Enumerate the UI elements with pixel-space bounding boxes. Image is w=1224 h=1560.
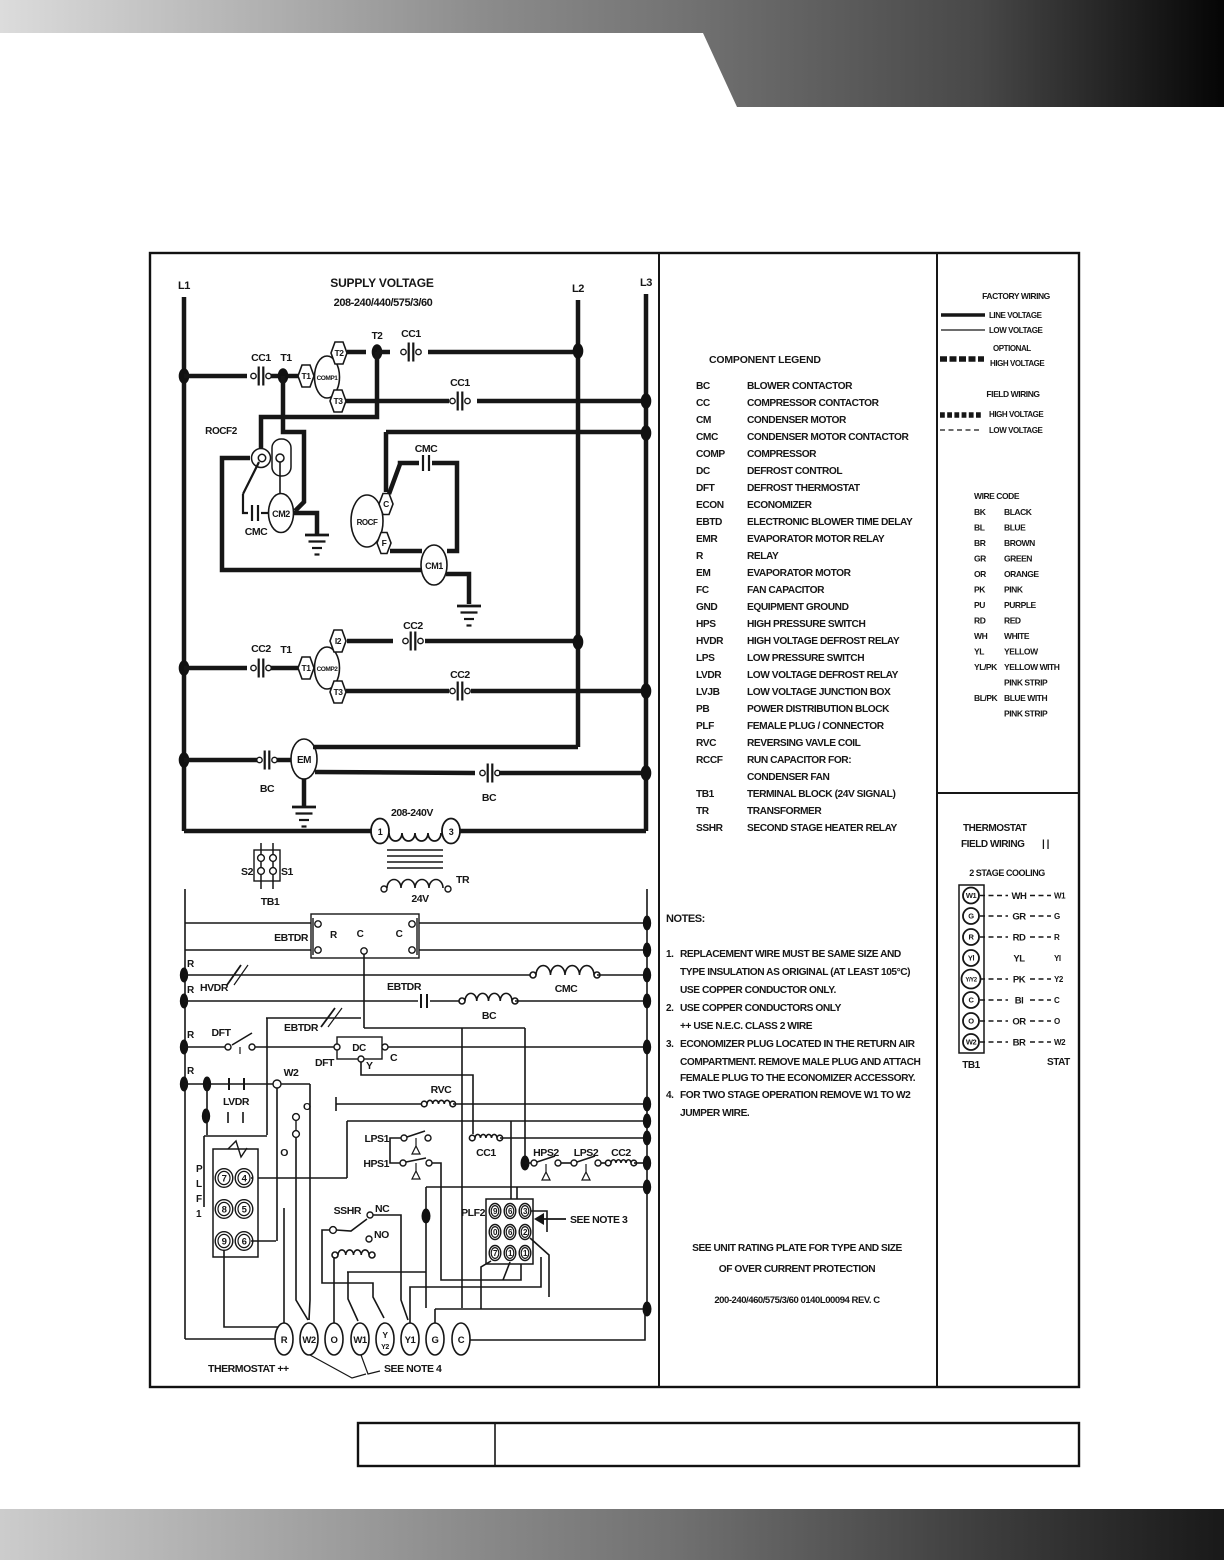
svg-text:CMC: CMC (415, 443, 438, 455)
connector PLF1 box (213, 1149, 258, 1257)
wire LPS bracket (390, 1138, 401, 1163)
svg-text:TERMINAL BLOCK (24V SIGNAL): TERMINAL BLOCK (24V SIGNAL) (747, 789, 895, 800)
wire CC1c to L3 (477, 399, 646, 404)
svg-text:O: O (1054, 1017, 1060, 1026)
sample field high voltage (940, 412, 982, 418)
svg-text:YELLOW WITH: YELLOW WITH (1004, 662, 1060, 672)
svg-text:LVJB: LVJB (696, 687, 720, 698)
symbol HPS2 triangle (545, 1164, 547, 1172)
svg-text:G: G (1054, 912, 1060, 921)
wire dot to HPS2 (525, 1162, 531, 1164)
svg-text:EBTD: EBTD (696, 517, 722, 528)
wire CMC loop to L3 (386, 430, 646, 435)
svg-text:SECOND STAGE HEATER RELAY: SECOND STAGE HEATER RELAY (747, 823, 898, 834)
svg-text:SUPPLY VOLTAGE: SUPPLY VOLTAGE (330, 276, 434, 290)
svg-text:REVERSING VAVLE COIL: REVERSING VAVLE COIL (747, 738, 861, 749)
svg-text:T2: T2 (334, 348, 344, 358)
thermostat terminal R (275, 1323, 293, 1355)
svg-text:EM: EM (297, 755, 311, 766)
svg-text:COMPARTMENT. REMOVE MALE PLUG: COMPARTMENT. REMOVE MALE PLUG AND ATTACH (680, 1057, 921, 1068)
wire left 24V bus (184, 889, 186, 1339)
switch LPS2 (571, 1160, 577, 1166)
svg-text:EVAPORATOR MOTOR RELAY: EVAPORATOR MOTOR RELAY (747, 534, 885, 545)
svg-text:CMC: CMC (245, 526, 268, 538)
node L1 row2 (179, 660, 190, 676)
svg-text:LVDR: LVDR (223, 1096, 250, 1108)
svg-text:BR: BR (1013, 1038, 1026, 1049)
node bus DC (643, 1040, 651, 1055)
wire BC row (184, 1000, 418, 1002)
svg-text:RVC: RVC (431, 1084, 452, 1096)
wire R riser (283, 1208, 285, 1323)
sample optional high voltage (940, 356, 984, 362)
page top gradient banner (0, 0, 1224, 107)
thermostat terminal Y/Y2 (376, 1323, 394, 1355)
PLF1 pin 7 (215, 1169, 233, 1188)
svg-text:L3: L3 (640, 277, 652, 289)
PLF1 pin 6 (235, 1232, 253, 1251)
svg-text:LOW VOLTAGE: LOW VOLTAGE (989, 426, 1044, 435)
node LVDR branch (203, 1077, 211, 1092)
sample line voltage (941, 313, 985, 317)
svg-text:COMPRESSOR: COMPRESSOR (747, 449, 817, 460)
svg-text:C: C (1054, 996, 1060, 1005)
svg-text:3: 3 (449, 827, 454, 837)
svg-text:TRANSFORMER: TRANSFORMER (747, 806, 822, 817)
svg-text:Y2: Y2 (1054, 975, 1064, 984)
PLF2 pin 0 (489, 1225, 501, 1240)
svg-text:G: G (968, 912, 974, 921)
svg-text:HIGH VOLTAGE: HIGH VOLTAGE (989, 410, 1044, 419)
compressor COMP1 (315, 356, 340, 398)
contact CMC plates (251, 505, 253, 521)
svg-text:C: C (357, 929, 364, 940)
wire EBTDR C down (363, 954, 365, 1028)
svg-text:C: C (396, 929, 403, 940)
page bottom gradient bar (0, 1509, 1224, 1560)
wire DFT to DC (255, 1046, 334, 1048)
svg-text:NO: NO (374, 1229, 389, 1241)
wire blade to CMC contact (243, 494, 248, 513)
svg-text:CC2: CC2 (251, 643, 271, 655)
svg-text:FEMALE PLUG / CONNECTOR: FEMALE PLUG / CONNECTOR (747, 721, 885, 732)
wire Y branch (361, 1062, 473, 1134)
svg-text:4.: 4. (666, 1090, 674, 1101)
wire HPS2 to LPS2 (561, 1162, 571, 1164)
svg-text:6: 6 (242, 1236, 247, 1247)
svg-text:G: G (432, 1335, 439, 1346)
terminal SSHR NO (366, 1236, 372, 1242)
svg-text:BLOWER CONTACTOR: BLOWER CONTACTOR (747, 381, 853, 392)
svg-text:SSHR: SSHR (334, 1205, 362, 1217)
switch HVDR (227, 965, 241, 985)
wire drop x525 (524, 1028, 526, 1158)
svg-text:PURPLE: PURPLE (1004, 600, 1037, 610)
svg-text:ROCF2: ROCF2 (205, 426, 238, 437)
svg-text:DFT: DFT (211, 1027, 231, 1039)
svg-text:USE COPPER CONDUCTOR ONLY.: USE COPPER CONDUCTOR ONLY. (680, 985, 836, 996)
PLF2 pin 3 (519, 1204, 531, 1219)
contact BC row EM (257, 757, 262, 762)
wire LVDR branch drop (206, 1084, 208, 1135)
wire L2 bus (576, 300, 581, 747)
svg-text:LOW VOLTAGE: LOW VOLTAGE (989, 326, 1044, 335)
svg-text:PINK STRIP: PINK STRIP (1004, 709, 1048, 719)
node bus RVC (643, 1097, 651, 1112)
ground EM (292, 806, 316, 809)
wire CMC to CM2 (261, 512, 269, 514)
svg-text:T1: T1 (280, 644, 292, 656)
svg-text:FACTORY WIRING: FACTORY WIRING (982, 291, 1051, 301)
svg-text:CC1: CC1 (476, 1147, 496, 1159)
svg-text:TR: TR (456, 874, 470, 886)
wire I2 to CC2b (347, 639, 393, 644)
svg-text:BC: BC (696, 381, 711, 392)
svg-text:CC1: CC1 (251, 352, 271, 364)
svg-text:BC: BC (482, 1010, 497, 1022)
wire capacitor to corner (432, 463, 457, 551)
wire drop x511 (510, 1121, 512, 1206)
svg-text:HPS2: HPS2 (533, 1147, 559, 1159)
contact CC1 row T3 (450, 398, 455, 403)
node bus CC2 (643, 1156, 651, 1171)
switch LPS1 (401, 1135, 407, 1141)
svg-text:TR: TR (696, 806, 710, 817)
wire T2 branch (261, 352, 377, 452)
terminal O jumper top (293, 1114, 300, 1121)
PLF2 pin 7 (489, 1246, 501, 1261)
svg-text:W1: W1 (966, 891, 977, 900)
svg-text:YL: YL (974, 647, 984, 657)
wire EM top to L2 (313, 745, 578, 750)
svg-text:CONDENSER FAN: CONDENSER FAN (747, 772, 830, 783)
svg-text:BL/PK: BL/PK (974, 693, 999, 703)
wire feed row (347, 1120, 647, 1122)
wire RVC row left (336, 1103, 421, 1105)
svg-text:CONDENSER MOTOR: CONDENSER MOTOR (747, 415, 847, 426)
thermostat terminal C (452, 1323, 470, 1355)
switch blade ROCF2 (243, 462, 259, 494)
svg-text:FC: FC (696, 585, 710, 596)
wire drop x517 (516, 1187, 518, 1227)
wire RVC stub (335, 1097, 337, 1111)
contact CC1 row1 (251, 373, 256, 378)
wire CM2 to ground (293, 513, 317, 534)
symbol LPS2 triangle (585, 1164, 587, 1172)
svg-text:WHITE: WHITE (1004, 631, 1030, 641)
switch HPS2 (531, 1160, 537, 1166)
svg-text:OF OVER CURRENT PROTECTION: OF OVER CURRENT PROTECTION (719, 1264, 875, 1275)
coil CC2 (611, 1160, 631, 1163)
svg-text:COMP: COMP (696, 449, 725, 460)
svg-text:TB1: TB1 (696, 789, 715, 800)
svg-text:YL: YL (1013, 954, 1025, 965)
thermostat terminal G (426, 1323, 444, 1355)
svg-text:C: C (383, 499, 389, 509)
node L2 row I2 (573, 634, 584, 650)
terminal DC Y (358, 1056, 364, 1062)
svg-text:Y1: Y1 (405, 1335, 417, 1346)
svg-text:T1: T1 (280, 352, 292, 364)
svg-text:T3: T3 (333, 687, 343, 697)
node bus left LVDR (180, 1077, 188, 1092)
wire HVDR row (184, 974, 530, 976)
wire T2 to node (347, 350, 366, 355)
contact LVDR lower ticks (227, 1112, 229, 1123)
node L3 row CMC (641, 425, 652, 441)
svg-text:TB1: TB1 (962, 1060, 980, 1071)
divider legend/wiring (936, 253, 938, 1387)
wire pin9 to R (224, 1250, 283, 1333)
svg-text:EBTDR: EBTDR (387, 981, 422, 993)
svg-text:LPS: LPS (696, 653, 715, 664)
wire down to C terminal (384, 432, 389, 492)
svg-text:DFT: DFT (696, 483, 716, 494)
svg-text:++ USE N.E.C. CLASS 2 WIRE: ++ USE N.E.C. CLASS 2 WIRE (680, 1021, 813, 1032)
wire pin4 lead (251, 1177, 253, 1179)
svg-text:PB: PB (696, 704, 709, 715)
svg-text:7: 7 (222, 1173, 227, 1184)
wire drop x462 (461, 1028, 463, 1308)
coil RVC (427, 1100, 450, 1104)
svg-text:F: F (382, 538, 387, 548)
coil CC1 (475, 1134, 497, 1138)
svg-text:FIELD WIRING: FIELD WIRING (961, 839, 1025, 850)
svg-text:O: O (968, 1017, 974, 1026)
svg-text:C: C (458, 1335, 465, 1346)
svg-text:8: 8 (222, 1204, 227, 1215)
svg-text:RVC: RVC (696, 738, 717, 749)
wire CC1 to T1 (271, 374, 299, 379)
terminal T1b hexagon (298, 657, 314, 679)
wire O jumper drop (296, 1137, 308, 1320)
svg-text:W1: W1 (353, 1335, 368, 1346)
svg-text:BK: BK (974, 507, 987, 517)
TB1 contacts (258, 855, 265, 862)
EBTDR left bracket (312, 918, 314, 955)
svg-text:200-240/460/575/3/60 0140L00: 200-240/460/575/3/60 0140L00094 REV. C (714, 1295, 880, 1306)
node T1 (278, 368, 289, 384)
coil transformer primary (389, 833, 441, 841)
svg-text:O: O (331, 1335, 338, 1346)
PLF1 zigzag (228, 1141, 247, 1157)
wire CC1 to bus (500, 1137, 647, 1139)
PLF2 pin 5 (504, 1225, 516, 1240)
wire EM to BC2 (315, 772, 475, 773)
svg-text:GND: GND (696, 602, 717, 613)
coil CMC (536, 966, 594, 975)
node L3 row EM (641, 765, 652, 781)
EBTDR C terminal (361, 948, 367, 954)
svg-text:Y: Y (366, 1060, 373, 1072)
wire feed drop x426 (425, 1187, 427, 1308)
svg-text:| |: | | (1042, 839, 1050, 850)
wire feed drop (346, 1121, 348, 1178)
svg-text:I2: I2 (335, 636, 342, 646)
wire NC row drop (266, 1018, 268, 1135)
svg-text:CC2: CC2 (450, 669, 470, 681)
svg-text:JUMPER WIRE.: JUMPER WIRE. (680, 1108, 750, 1119)
node bus BC (643, 994, 651, 1009)
wire HPS1 out (432, 1163, 521, 1280)
svg-text:THERMOSTAT: THERMOSTAT (963, 823, 1027, 834)
svg-text:COMPONENT LEGEND: COMPONENT LEGEND (709, 354, 821, 366)
svg-text:LOW VOLTAGE JUNCTION BOX: LOW VOLTAGE JUNCTION BOX (747, 687, 891, 698)
node bus left BC (180, 994, 188, 1009)
ground CM1 (457, 605, 481, 608)
svg-text:PK: PK (974, 585, 986, 595)
wire W2 to corner (281, 1083, 310, 1085)
svg-text:CM2: CM2 (272, 509, 290, 519)
PLF2 pin 9 (489, 1204, 501, 1219)
wire pin2 out (530, 1238, 549, 1297)
PLF1 pin 8 (215, 1200, 233, 1219)
PLF1 pin 5 (235, 1200, 253, 1219)
sample low voltage (941, 329, 985, 331)
svg-text:HIGH VOLTAGE: HIGH VOLTAGE (990, 359, 1045, 368)
svg-text:CMC: CMC (555, 983, 578, 995)
svg-text:L2: L2 (572, 283, 584, 295)
contact CC2 row2 (251, 665, 256, 670)
thermostat terminal O (325, 1323, 343, 1355)
svg-text:COMPRESSOR CONTACTOR: COMPRESSOR CONTACTOR (747, 398, 880, 409)
svg-text:3.: 3. (666, 1039, 674, 1050)
wire pin6 lead (251, 1240, 276, 1242)
thermostat terminal W2 (300, 1323, 318, 1355)
svg-text:SEE UNIT RATING PLATE FOR TYPE: SEE UNIT RATING PLATE FOR TYPE AND SIZE (692, 1243, 902, 1254)
svg-text:CC2: CC2 (611, 1147, 631, 1159)
svg-text:POWER DISTRIBUTION BLOCK: POWER DISTRIBUTION BLOCK (747, 704, 890, 715)
terminal 3 transformer (442, 819, 460, 844)
wire C to bus (470, 1311, 645, 1340)
wire pin7 out (481, 1261, 491, 1309)
contact CC1 row T2 (401, 349, 406, 354)
svg-text:1: 1 (378, 827, 383, 837)
svg-text:W2: W2 (284, 1067, 299, 1079)
svg-text:L: L (196, 1179, 202, 1190)
svg-text:BR: BR (974, 538, 986, 548)
svg-text:L1: L1 (178, 280, 190, 292)
capacitor ROCF2 body (252, 449, 271, 468)
svg-text:GREEN: GREEN (1004, 554, 1032, 564)
svg-text:RED: RED (1004, 616, 1021, 626)
contact CC2 row T3b (450, 688, 455, 693)
wire CC1b to L2 (428, 350, 578, 355)
svg-text:1: 1 (196, 1209, 202, 1220)
svg-text:GR: GR (974, 554, 986, 564)
coil transformer secondary (387, 880, 443, 889)
svg-text:LVDR: LVDR (696, 670, 722, 681)
svg-text:OR: OR (974, 569, 986, 579)
svg-text:CONDENSER MOTOR CONTACTOR: CONDENSER MOTOR CONTACTOR (747, 432, 909, 443)
svg-text:R: R (696, 551, 704, 562)
bracket PLF1 (203, 1136, 205, 1207)
wire EBTDR NC row (266, 1017, 361, 1019)
wire L1 bus (182, 297, 187, 831)
wire L1 to CC1 (184, 374, 247, 379)
svg-text:2.: 2. (666, 1003, 674, 1014)
contact CMC right plates (422, 455, 424, 471)
svg-text:HPS: HPS (696, 619, 716, 630)
terminal SSHR NC (367, 1212, 373, 1218)
svg-text:BROWN: BROWN (1004, 538, 1035, 548)
svg-text:EMR: EMR (696, 534, 718, 545)
svg-text:PINK: PINK (1004, 585, 1024, 595)
svg-text:EBTDR: EBTDR (284, 1022, 319, 1034)
node bus G row (643, 1302, 652, 1317)
svg-text:Bl: Bl (1015, 996, 1024, 1007)
terminal DC right (382, 1044, 388, 1050)
svg-text:9: 9 (222, 1236, 227, 1247)
svg-text:LOW VOLTAGE DEFROST RELAY: LOW VOLTAGE DEFROST RELAY (747, 670, 899, 681)
svg-text:EM: EM (696, 568, 710, 579)
svg-text:DFT: DFT (315, 1057, 335, 1069)
terminal W2 jumper (273, 1080, 281, 1088)
svg-text:CC: CC (696, 398, 711, 409)
thermostat terminal W1 (351, 1323, 369, 1355)
transformer core (387, 849, 443, 851)
svg-text:OPTIONAL: OPTIONAL (993, 344, 1031, 353)
wire T3 to CC1c (346, 399, 449, 404)
wire W1 feed cross row (347, 1271, 426, 1273)
wire transformer to L3 (460, 829, 646, 834)
bottom title block box (358, 1423, 1079, 1466)
svg-text:PINK STRIP: PINK STRIP (1004, 678, 1048, 688)
svg-text:EVAPORATOR MOTOR: EVAPORATOR MOTOR (747, 568, 852, 579)
control DC box (337, 1037, 382, 1059)
svg-text:C: C (390, 1052, 398, 1064)
connector PLF2 box (486, 1199, 533, 1264)
svg-text:ROCF: ROCF (357, 518, 378, 527)
svg-text:WH: WH (1012, 891, 1028, 902)
contact CC2 row I2 (403, 638, 408, 643)
terminal ROCF2 right (276, 454, 284, 462)
svg-text:Yl: Yl (968, 954, 975, 963)
wire right 24V bus (646, 889, 648, 1309)
contact LVDR (228, 1078, 230, 1090)
terminal T3b hexagon (330, 681, 346, 703)
wire BC2 to L3 (499, 771, 646, 776)
node L1-T1 row (179, 368, 190, 384)
wire see note 4 pointer W2 (310, 1355, 366, 1378)
svg-text:F: F (196, 1194, 202, 1205)
wire see note 4 pointer W1 (361, 1355, 380, 1374)
svg-text:LOW PRESSURE SWITCH: LOW PRESSURE SWITCH (747, 653, 864, 664)
svg-text:CC2: CC2 (403, 620, 423, 632)
node bus HVDR (643, 968, 651, 983)
wire T2 node to CC1b (377, 350, 390, 355)
arrow see note 3 (534, 1213, 544, 1225)
switch SSHR pivot (330, 1227, 337, 1234)
wire F to CM1 (390, 549, 422, 554)
svg-text:ECONOMIZER PLUG LOCATED IN THE: ECONOMIZER PLUG LOCATED IN THE RETURN AI… (680, 1039, 916, 1050)
wire O jumper (295, 1120, 297, 1131)
wire ROCF2 to CM1 loop (222, 458, 421, 570)
svg-text:EQUIPMENT GROUND: EQUIPMENT GROUND (747, 602, 849, 613)
PLF1 pin 9 (215, 1232, 233, 1251)
svg-text:CC1: CC1 (450, 377, 470, 389)
svg-text:WH: WH (974, 631, 988, 641)
svg-text:Y: Y (382, 1330, 388, 1340)
svg-text:W2: W2 (302, 1335, 316, 1346)
wire PLF2 feed row (426, 1186, 647, 1188)
wire CMC to bus (597, 974, 647, 976)
svg-text:W1: W1 (1054, 892, 1066, 901)
divider right column horizontal (937, 792, 1079, 794)
wire to BC coil (430, 1000, 459, 1002)
node HPS2 feed (521, 1156, 530, 1171)
node splice (422, 1209, 431, 1224)
